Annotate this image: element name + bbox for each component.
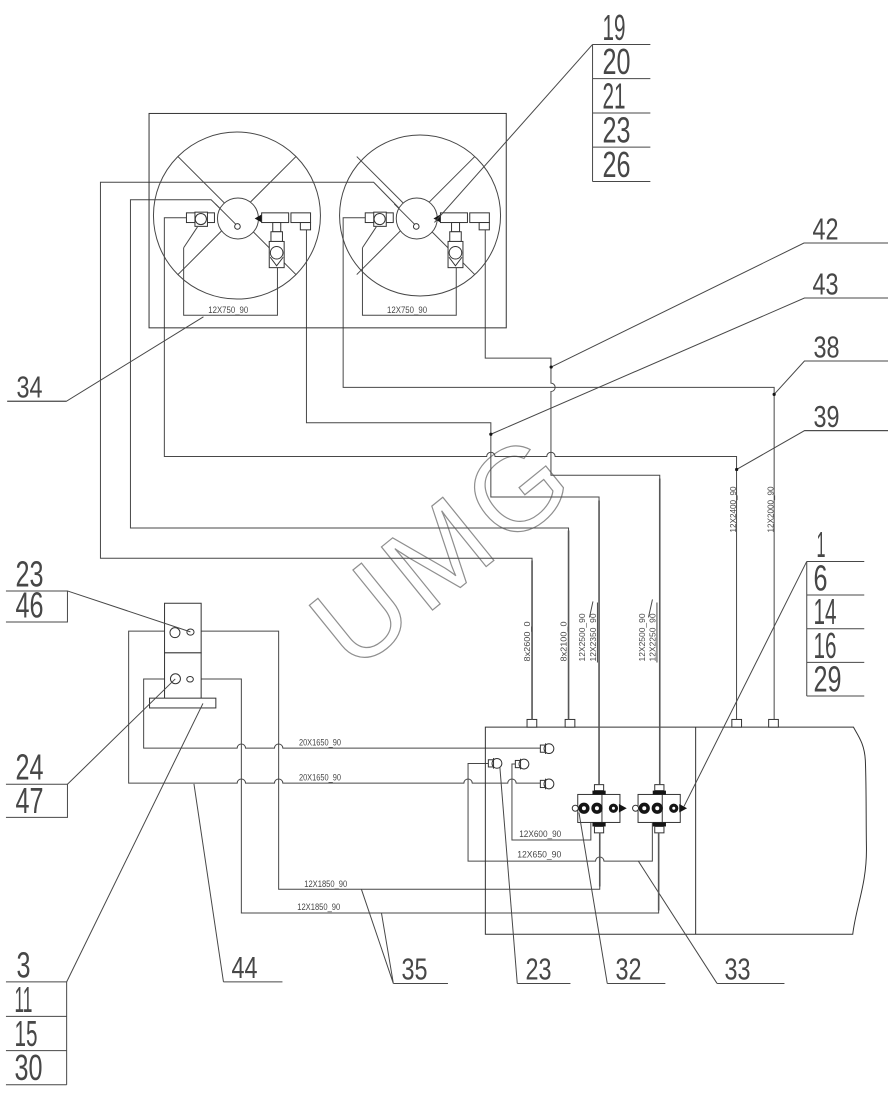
tee fitting wheel 1	[262, 213, 289, 242]
wire W1: wheel1 left fitting to right drop 12X2400_90	[164, 218, 736, 720]
svg-text:12X750_90: 12X750_90	[208, 305, 248, 315]
wire W4: wheel2 elbow to valve block 2	[485, 230, 660, 785]
leader 3 stack to base plate	[67, 703, 203, 981]
watermark UMG	[287, 405, 600, 694]
svg-text:20X1650_90: 20X1650_90	[299, 737, 341, 747]
callout 23 bottom	[517, 951, 570, 986]
loop pipe 12X750_90 wheel 1	[184, 248, 278, 316]
svg-text:23: 23	[525, 951, 551, 986]
cable drum wheel 1	[153, 132, 320, 299]
svg-text:12X2400_90: 12X2400_90	[728, 486, 738, 532]
svg-text:47: 47	[15, 780, 43, 821]
svg-text:30: 30	[14, 1047, 42, 1088]
callout 32	[607, 951, 665, 986]
drum assembly enclosure box	[149, 113, 506, 327]
svg-text:12X1850_90: 12X1850_90	[297, 902, 340, 912]
svg-text:12X600_90: 12X600_90	[519, 829, 561, 839]
callout stack 24/47	[6, 747, 67, 821]
cable drum wheel 2	[340, 135, 501, 296]
leader 19 stack to wheel2 hub	[434, 44, 592, 222]
callout stack 23/46	[6, 553, 67, 625]
svg-text:8x2600_0: 8x2600_0	[522, 621, 532, 661]
leader 42 to pipe W4	[551, 243, 888, 367]
quick coupler C3	[515, 759, 528, 770]
arrow into hub wheel 1	[255, 214, 263, 223]
quick coupler C2	[488, 758, 502, 769]
hose loop A: block1 bottom to coupler C4 20X1650_90	[129, 631, 600, 889]
tee fitting wheel 2	[440, 213, 467, 242]
bulkhead connector S4	[769, 719, 779, 727]
callout 35	[393, 951, 448, 986]
loop pipe 12X750_90 wheel 2	[362, 248, 456, 316]
machine frame panel	[485, 727, 866, 934]
callout 44	[223, 950, 282, 985]
wire W5: manifold connector S1 to wheel2 hub 8x2600_0	[100, 182, 532, 719]
leader 32 to block1	[579, 812, 607, 983]
left gland fitting wheel 1	[184, 212, 215, 248]
svg-text:12X750_90: 12X750_90	[387, 305, 427, 315]
left gland fitting wheel 2	[362, 212, 393, 248]
callout 34	[7, 369, 66, 404]
svg-text:12X650_90: 12X650_90	[517, 849, 561, 859]
bracket base plate	[150, 698, 216, 708]
svg-text:12X2250_90: 12X2250_90	[647, 613, 657, 661]
hub bearing 2	[394, 198, 437, 239]
leader 34 to loop pipe wheel1	[7, 317, 203, 401]
svg-text:12X2350_90: 12X2350_90	[588, 613, 598, 661]
svg-text:26: 26	[602, 144, 630, 185]
wire W2: wheel1 elbow to valve block 1	[306, 230, 599, 785]
hose: coupler C2 drop 12X650_90	[468, 763, 652, 861]
callout 38	[804, 329, 888, 364]
svg-text:42: 42	[812, 211, 838, 246]
svg-text:35: 35	[401, 951, 427, 986]
hose loop B: block2 bottom to coupler C1 20X1650_90	[144, 679, 659, 913]
svg-text:44: 44	[231, 950, 257, 985]
grease valve wheel 1	[269, 241, 284, 267]
bracket holes	[170, 628, 194, 684]
wire W6: manifold connector S2 to wheel1 hub 8x2100_0	[130, 200, 568, 720]
elbow fitting wheel 2	[470, 213, 490, 230]
callout 33	[717, 951, 784, 986]
leader 35 to hoses 12X1850_90	[361, 889, 393, 983]
svg-text:29: 29	[813, 659, 841, 700]
svg-text:8x2100_0: 8x2100_0	[558, 621, 568, 661]
mounting bracket bar	[165, 603, 202, 653]
distributor valve block 1	[572, 785, 627, 833]
pipe overdraw block feeds	[532, 478, 660, 910]
label underline ticks	[589, 599, 657, 662]
callout stack 3/11/15/30	[6, 944, 67, 1088]
leader 23 to coupler C2	[500, 767, 517, 984]
svg-text:32: 32	[615, 951, 641, 986]
leader 38 to pipe 12X2000_90	[774, 361, 888, 394]
hose: coupler C3 drop 12X600_90	[512, 764, 591, 840]
bulkhead connector S2	[565, 719, 575, 727]
svg-text:12X2500_90: 12X2500_90	[637, 613, 647, 661]
grease valve wheel 2	[448, 241, 463, 267]
distributor valve block 2	[633, 785, 688, 833]
bulkhead connector S3	[732, 719, 742, 727]
svg-text:34: 34	[16, 369, 42, 404]
svg-text:38: 38	[813, 329, 839, 364]
pipe size labels vertical	[522, 486, 775, 661]
svg-text:12X1850_90: 12X1850_90	[304, 879, 347, 889]
callout stack 1/6/14/16/29	[807, 524, 865, 700]
leader 33 to hose 12X650_90	[638, 861, 717, 983]
panel divider	[695, 727, 697, 934]
bulkhead connector S1	[527, 719, 537, 727]
quick coupler C1	[540, 743, 553, 754]
callout 43	[804, 266, 888, 301]
svg-text:12X2500_90: 12X2500_90	[577, 613, 587, 661]
svg-text:46: 46	[15, 585, 43, 626]
svg-text:43: 43	[812, 266, 838, 301]
svg-text:20X1650_90: 20X1650_90	[299, 772, 341, 782]
leader 39 to pipe 12X2400_90	[737, 431, 888, 470]
arrow into hub wheel 2	[433, 214, 441, 223]
leader 24/47 to bracket lower hole	[67, 679, 175, 784]
leader end dots	[489, 365, 776, 471]
hub bearing 1	[215, 198, 258, 239]
svg-text:33: 33	[724, 951, 750, 986]
leader 43 to pipe W2	[491, 298, 888, 434]
leader 1 stack to block2 fitting	[684, 561, 807, 806]
svg-text:12X2000_90: 12X2000_90	[765, 486, 775, 532]
pipe size labels horizontal	[297, 737, 561, 912]
leader 23/46 to bracket top hole	[67, 591, 190, 632]
elbow fitting wheel 1	[291, 213, 311, 230]
leader 44 to hose loop A	[194, 784, 224, 982]
quick coupler C4	[540, 779, 553, 790]
svg-text:39: 39	[813, 399, 839, 434]
wire W3: wheel2 left fitting to right drop 12X2000_90	[343, 218, 774, 720]
callout 42	[804, 211, 888, 246]
callout 39	[804, 399, 888, 434]
callout stack 19/20/21/23/26	[593, 7, 651, 185]
